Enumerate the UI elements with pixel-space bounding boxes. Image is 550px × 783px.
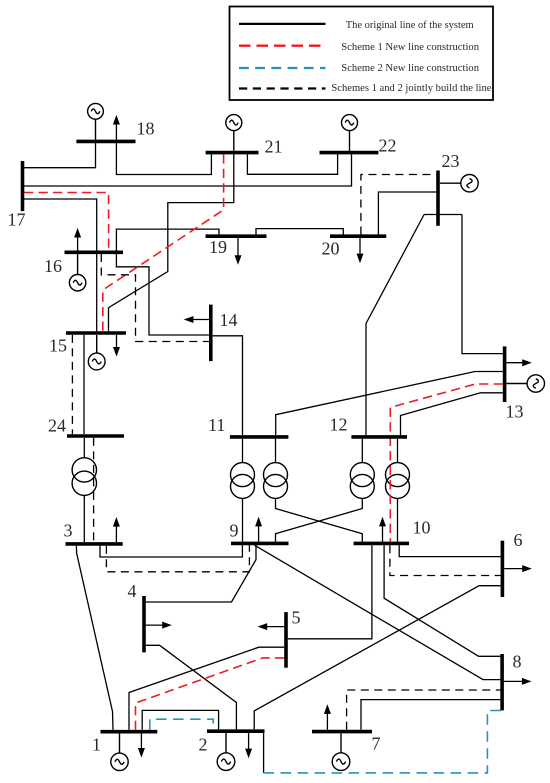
svg-text:4: 4: [128, 581, 137, 601]
svg-text:13: 13: [506, 402, 524, 422]
svg-text:The original line of the syste: The original line of the system: [346, 19, 474, 31]
svg-text:3: 3: [64, 521, 73, 541]
svg-text:10: 10: [413, 518, 431, 538]
svg-text:2: 2: [199, 735, 208, 755]
svg-text:15: 15: [49, 336, 67, 356]
svg-text:Schemes 1 and 2 jointly build: Schemes 1 and 2 jointly build the line: [331, 82, 491, 94]
svg-text:21: 21: [265, 137, 283, 157]
svg-text:8: 8: [513, 652, 522, 672]
svg-text:17: 17: [8, 210, 26, 230]
svg-text:9: 9: [230, 521, 239, 541]
svg-text:1: 1: [92, 735, 101, 755]
svg-text:5: 5: [292, 608, 301, 628]
svg-text:16: 16: [44, 256, 62, 276]
svg-text:Scheme 2 New line construction: Scheme 2 New line construction: [341, 62, 479, 74]
svg-text:12: 12: [330, 415, 348, 435]
svg-text:23: 23: [442, 151, 460, 171]
svg-text:19: 19: [209, 237, 227, 257]
svg-text:18: 18: [137, 118, 155, 138]
svg-text:7: 7: [372, 734, 381, 754]
svg-text:Scheme 1 New line construction: Scheme 1 New line construction: [341, 41, 479, 53]
svg-text:14: 14: [220, 310, 238, 330]
svg-text:11: 11: [208, 415, 225, 435]
svg-text:20: 20: [322, 239, 340, 259]
svg-text:24: 24: [48, 416, 66, 436]
svg-text:22: 22: [379, 136, 397, 156]
svg-text:6: 6: [514, 530, 523, 550]
